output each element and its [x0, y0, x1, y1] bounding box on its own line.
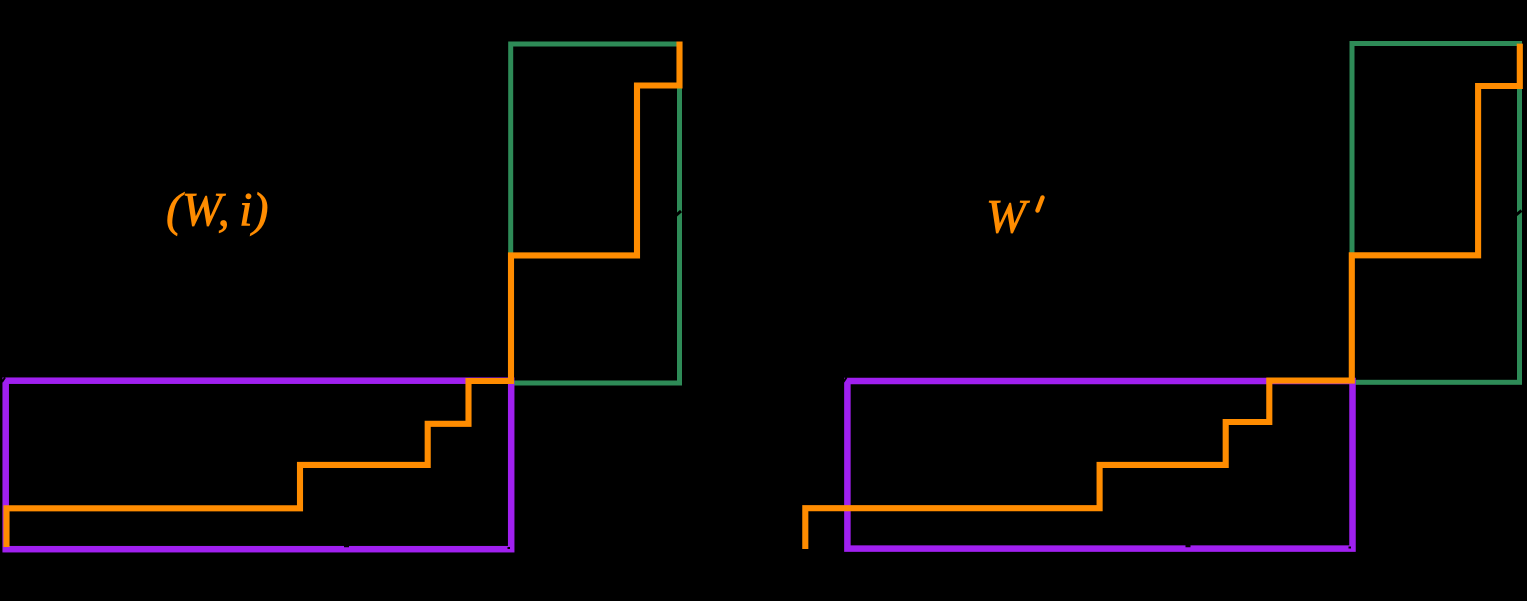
svg-text:(W, i): (W, i) [166, 184, 269, 237]
black nick at right purple box bottom-right inner corner [1349, 547, 1352, 549]
black nick at left purple box top-left corner [2, 378, 5, 383]
purple box (right diagram) [847, 381, 1352, 549]
prime mark of W' label [1038, 198, 1043, 211]
black nick on left green box right edge [673, 211, 682, 219]
green box (right diagram) [1352, 44, 1520, 383]
green box (left diagram) [511, 44, 680, 383]
svg-text:W: W [986, 191, 1030, 244]
black nick at right purple box top-left corner [844, 378, 847, 383]
black nick on right purple box bottom edge [1186, 545, 1191, 548]
orange lattice path W (left diagram) [7, 42, 680, 548]
orange lattice path W' (right diagram) [805, 44, 1520, 549]
black nick on right green box right edge [1513, 211, 1522, 218]
black nick at left purple box bottom-right inner corner [508, 547, 511, 549]
purple box (left diagram) [6, 381, 512, 550]
black nick on left purple box bottom edge [344, 545, 349, 548]
